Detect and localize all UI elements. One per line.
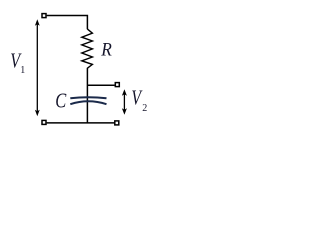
terminal square bottom-right [115,121,119,125]
svg-text:2: 2 [142,103,147,114]
terminal square top-right [115,83,119,87]
svg-text:1: 1 [20,65,25,76]
wire: junction to V2 top terminal [87,84,114,86]
wire: bottom from left terminal to right terminal [47,122,115,124]
terminal square bottom-left [42,120,46,124]
resistor R [82,29,93,68]
label V1 [10,50,25,76]
voltage arrow V1 (double-headed, between left terminals) [35,19,40,116]
wire: top from left terminal to resistor branch [47,16,88,30]
capacitor C top plate [70,97,106,98]
label V2 [131,86,147,114]
wire: resistor bottom lead down through capacitor to bottom wire [86,68,88,123]
capacitor C bottom plate [70,101,106,104]
voltage arrow V2 (double-headed, between right terminals) [122,89,127,114]
svg-text:R: R [100,39,112,60]
svg-text:C: C [55,90,66,113]
terminal square top-left [42,14,46,18]
